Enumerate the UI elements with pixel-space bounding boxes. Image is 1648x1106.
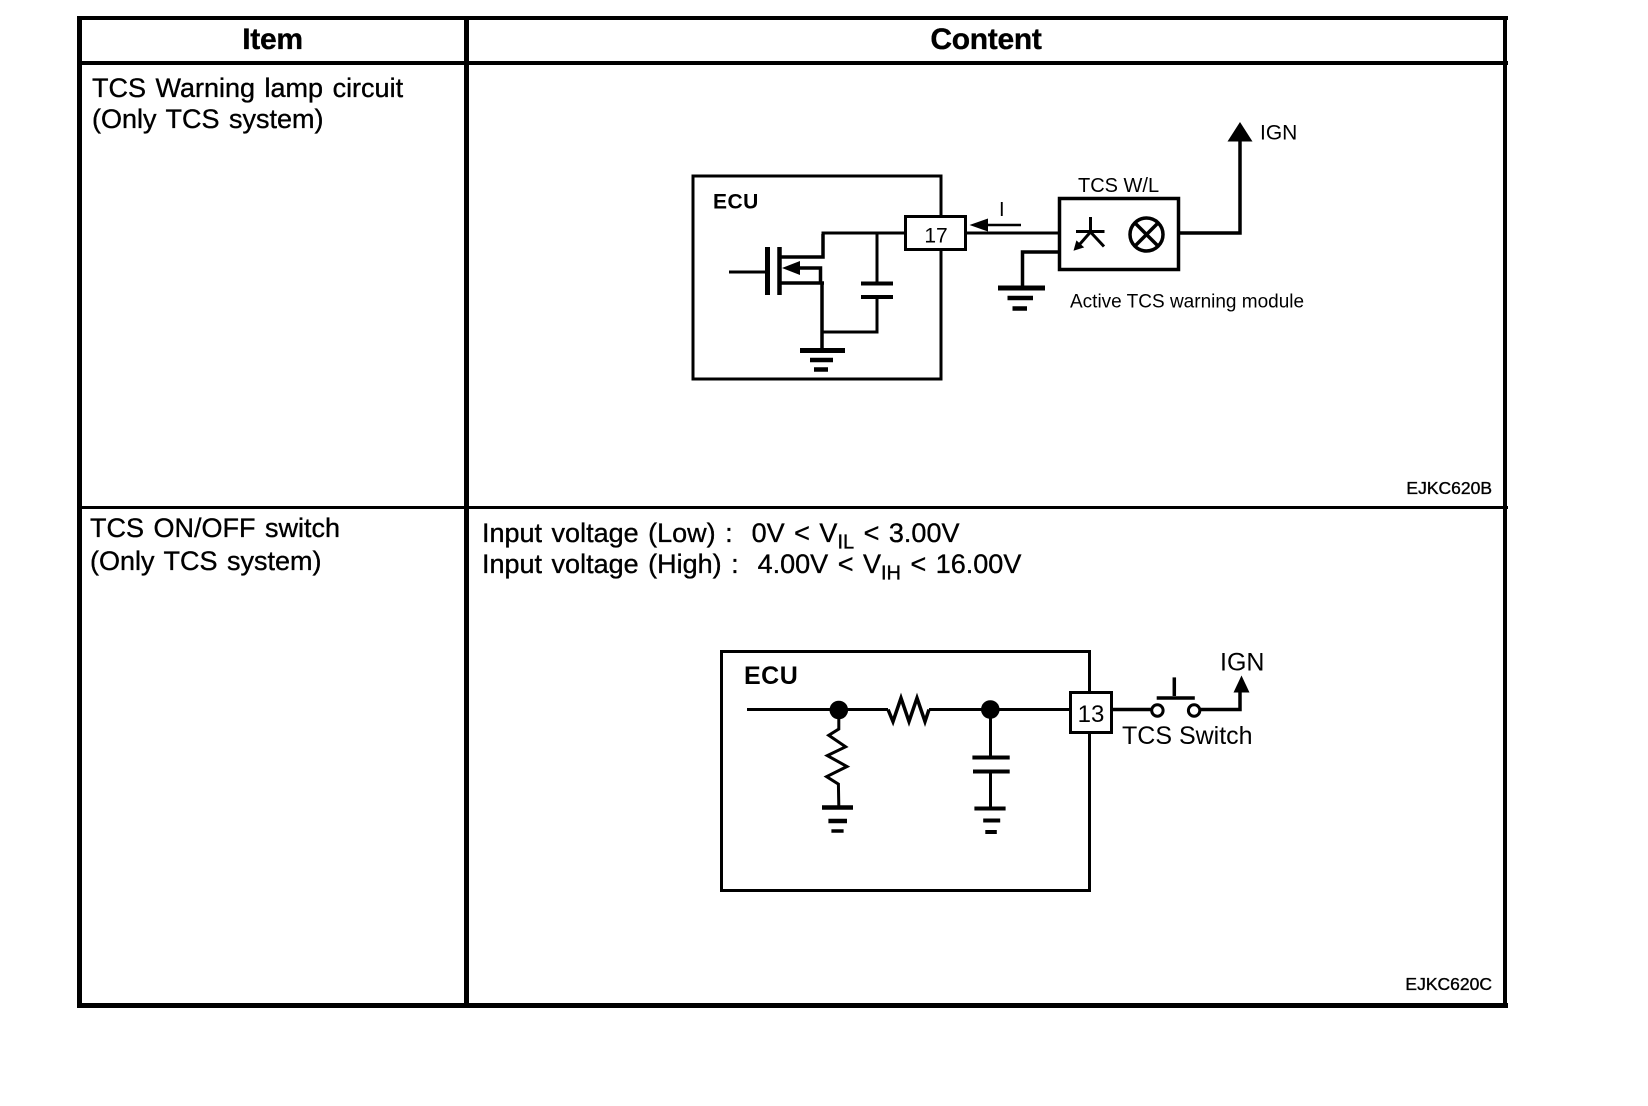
resistor R2 (pull-down) (827, 719, 847, 806)
ECU box (circuit 2) (722, 652, 1090, 891)
active TCS warning module symbol (1076, 217, 1105, 247)
wire drain to pin 17 (822, 232, 906, 235)
IGN arrow (circuit 2) (1234, 676, 1250, 693)
svg-text:TCS Switch: TCS Switch (1122, 722, 1253, 750)
header cell Item (81, 23, 464, 57)
transistor Q1 drain lead (780, 234, 823, 257)
ground (C2) (974, 809, 1005, 833)
svg-text:17: 17 (924, 225, 947, 248)
ECU box (circuit 1) (693, 176, 941, 379)
wire source to ground (820, 283, 824, 349)
TCS W/L module box (1060, 199, 1179, 270)
svg-text:IGN: IGN (1220, 649, 1264, 677)
svg-text:ECU: ECU (713, 191, 759, 214)
wire pin 13 to switch (1113, 708, 1152, 712)
capacitor C2 top plate (972, 756, 1009, 760)
wire switch to IGN (1200, 691, 1240, 710)
switch actuator (push button) (1173, 677, 1177, 696)
node junction 2 (981, 700, 1000, 719)
svg-text:I: I (999, 199, 1005, 221)
capacitor C2 top wire (989, 716, 992, 756)
svg-text:TCS W/L: TCS W/L (1078, 175, 1159, 197)
transistor Q1 channel bar (777, 247, 782, 295)
ground (TCS W/L) (998, 288, 1045, 309)
row2 item text (90, 512, 340, 578)
IGN arrow (circuit 1) (1228, 122, 1253, 142)
table right border (1503, 16, 1507, 1008)
lamp (TCS warning lamp) (1130, 218, 1163, 251)
table bottom border (78, 1003, 1508, 1008)
capacitor C2 bottom plate (973, 770, 1010, 774)
header cell Content (468, 23, 1504, 57)
column divider (464, 16, 469, 1008)
capacitor C1 bottom plate (861, 295, 893, 299)
transistor Q1 body lead wire (799, 268, 821, 283)
capacitor C1 top plate (861, 282, 893, 286)
switch terminal circle right (1188, 705, 1199, 716)
capacitor C1 bottom wire (822, 297, 877, 332)
header divider (78, 61, 1508, 65)
transistor Q1 body arrow (782, 261, 800, 275)
transistor Q1 gate bar (765, 247, 770, 295)
ground wire (TCS W/L) (1023, 252, 1060, 286)
wire pin 17 to TCS W/L (966, 232, 1059, 235)
ground (ECU circuit 1) (800, 351, 845, 370)
capacitor C1 top wire (876, 233, 879, 282)
svg-text:IGN: IGN (1260, 122, 1297, 145)
capacitor C2 bottom wire (989, 772, 992, 807)
table left border (77, 16, 82, 1008)
row1 item text (92, 73, 403, 135)
transistor Q1 source lead (780, 281, 824, 285)
ground (R2) (822, 808, 853, 832)
transistor Q1 gate lead wire (729, 271, 765, 274)
svg-text:13: 13 (1078, 701, 1105, 728)
table top border (78, 16, 1508, 20)
current arrow I (986, 224, 1021, 227)
pin 13 box (1071, 693, 1112, 733)
wire main left segment (747, 708, 888, 711)
row2 content text (482, 518, 1021, 580)
resistor R1 (series) (888, 698, 929, 722)
svg-text:ECU: ECU (744, 662, 798, 690)
figure code EJKC620C (1292, 974, 1492, 995)
svg-text:Active TCS warning module: Active TCS warning module (1070, 292, 1304, 313)
figure code EJKC620B (1292, 478, 1492, 499)
node junction 1 (830, 701, 849, 720)
switch terminal circle left (1152, 705, 1163, 716)
wire lamp to IGN (1179, 140, 1240, 233)
pin 17 box (906, 217, 966, 250)
wire main right segment (929, 708, 1069, 711)
row divider (78, 506, 1508, 509)
